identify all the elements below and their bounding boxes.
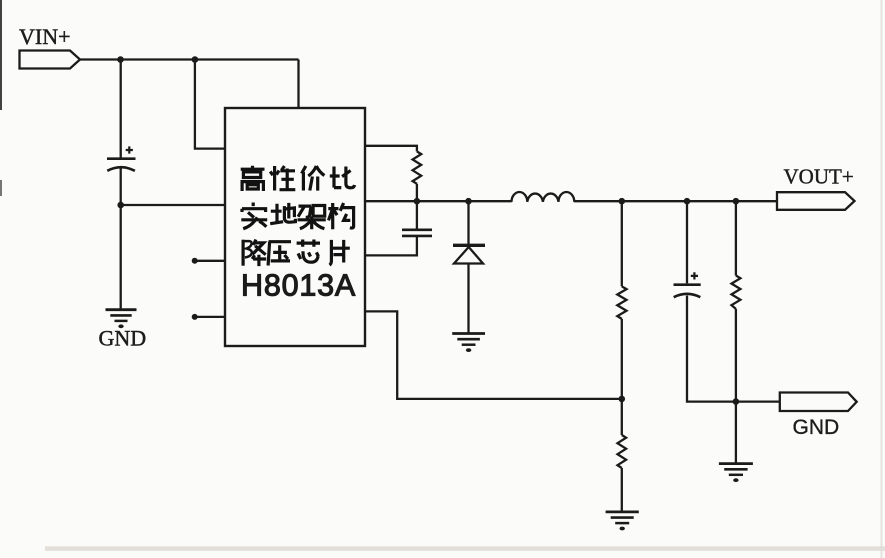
node J1 bbox=[117, 56, 124, 63]
node J9 bbox=[619, 396, 626, 403]
IC pin stub 1 bbox=[192, 258, 225, 264]
wire J1 to C1 bbox=[120, 60, 122, 161]
resistor R4 bbox=[732, 276, 741, 309]
node J10 bbox=[733, 398, 740, 405]
glyph jiang bbox=[243, 240, 266, 267]
glyph shi bbox=[241, 203, 267, 229]
wire J7 to C3 bbox=[686, 201, 688, 283]
node J7 bbox=[684, 198, 691, 205]
wire D1 to ground bbox=[467, 264, 469, 334]
IC U1 H8013A body bbox=[225, 108, 365, 346]
wire IC pin8 feedback bottom bbox=[365, 311, 622, 399]
wire R2 to node J9 bbox=[621, 319, 623, 399]
wire C2 to IC pin6 bbox=[365, 236, 417, 255]
wire C3 to bottom net bbox=[687, 296, 736, 402]
svg-text:H8013A: H8013A bbox=[241, 269, 356, 303]
glyph pian bbox=[330, 240, 350, 265]
resistor R1 bbox=[413, 151, 422, 183]
IC U1 part number bbox=[241, 269, 356, 303]
wire J6 to R2 bbox=[621, 201, 623, 286]
label GND right bbox=[793, 416, 840, 439]
wire IC pin5 to R1 bbox=[365, 146, 417, 152]
glyph xin bbox=[297, 240, 320, 263]
wire J8 to R4 bbox=[735, 201, 737, 275]
wire J10 to GND connector bbox=[736, 400, 780, 402]
wire R3 to ground bbox=[621, 468, 623, 512]
wire switch rail bbox=[365, 200, 777, 202]
capacitor C1 polarized bbox=[107, 146, 136, 170]
inductor L1 bbox=[512, 192, 575, 202]
wire J2 to IC pin1 bbox=[195, 60, 225, 149]
wire R1 to rail bbox=[416, 184, 418, 201]
ground G2 bbox=[452, 334, 485, 353]
IC U1 label text bbox=[241, 166, 355, 266]
svg-text:VOUT+: VOUT+ bbox=[784, 165, 854, 189]
wire C1 to node J3 bbox=[120, 168, 122, 205]
glyph jia bbox=[302, 166, 325, 191]
node J8 bbox=[733, 198, 740, 205]
svg-text:VIN+: VIN+ bbox=[19, 24, 71, 49]
wire J5 to D1 bbox=[467, 201, 469, 245]
wire J9 to R3 bbox=[621, 399, 623, 435]
glyph jia4 bbox=[298, 206, 326, 230]
ground G3 bbox=[606, 512, 639, 530]
glyph gao bbox=[241, 166, 265, 191]
node J2 bbox=[192, 56, 199, 63]
IC pin stub 2 bbox=[192, 314, 225, 320]
wire J3 to IC pin2 bbox=[121, 204, 225, 206]
connector VIN+ bbox=[20, 51, 81, 69]
resistor R3 bbox=[618, 435, 627, 468]
label GND left bbox=[99, 326, 147, 351]
wire VIN top rail bbox=[80, 60, 299, 109]
ground G1 bbox=[106, 310, 137, 328]
label VOUT+ bbox=[784, 165, 854, 189]
glyph di bbox=[270, 203, 295, 224]
label VIN+ bbox=[19, 24, 71, 49]
wire R4 to node J10 bbox=[735, 309, 737, 402]
glyph gou bbox=[328, 203, 353, 229]
glyph bi bbox=[330, 167, 355, 188]
wire J4 to C2 bbox=[416, 201, 418, 229]
diode D1 bbox=[453, 245, 485, 263]
resistor R2 bbox=[617, 286, 626, 319]
connector GND right bbox=[780, 393, 857, 412]
node J6 bbox=[619, 198, 626, 205]
node J3 bbox=[117, 202, 124, 209]
svg-text:GND: GND bbox=[793, 416, 840, 439]
ground G4 bbox=[719, 464, 753, 483]
capacitor C2 bbox=[402, 230, 432, 236]
wire J10 to ground bbox=[735, 402, 737, 464]
node J4 bbox=[414, 198, 421, 205]
node J5 bbox=[465, 198, 472, 205]
connector VOUT+ bbox=[777, 192, 855, 210]
svg-text:GND: GND bbox=[99, 326, 147, 351]
capacitor C3 polarized bbox=[674, 272, 701, 297]
wire J3 to ground bbox=[120, 205, 122, 310]
glyph xing bbox=[270, 166, 295, 191]
glyph ya bbox=[268, 242, 291, 266]
